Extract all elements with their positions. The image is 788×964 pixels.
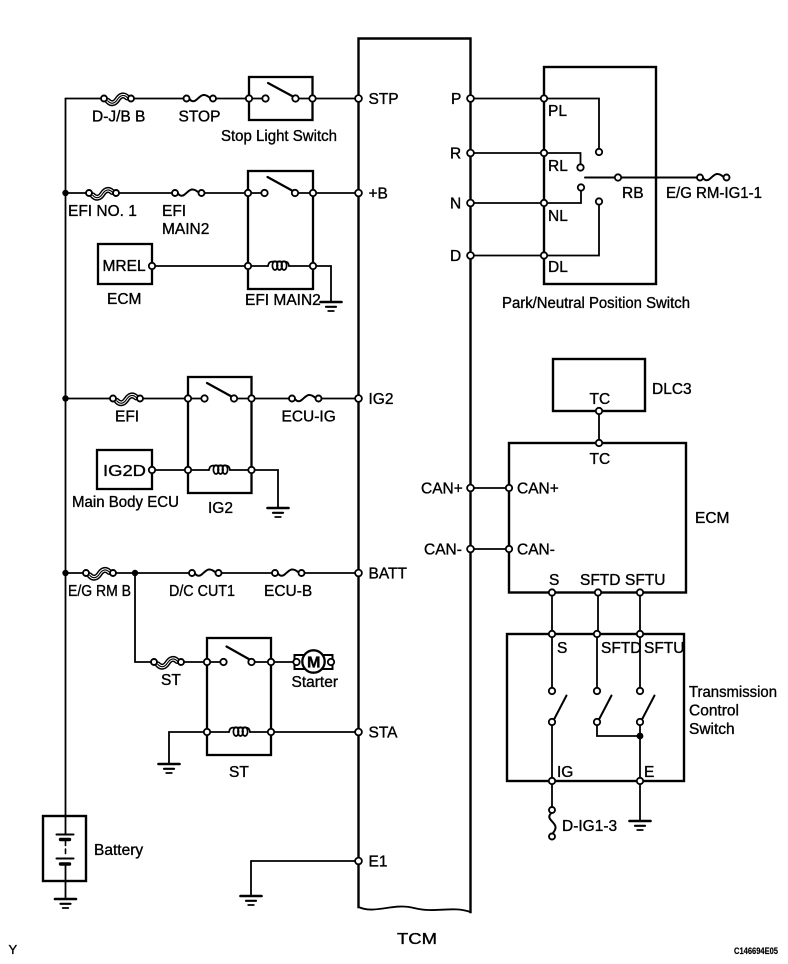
fuse E/G RM-IG1-1 <box>697 172 730 183</box>
terminal BATT <box>355 570 362 577</box>
svg-text:ECM: ECM <box>107 291 141 308</box>
coil of relay EFI MAIN2 <box>248 265 313 267</box>
svg-text:RL: RL <box>548 158 568 175</box>
svg-text:STA: STA <box>369 725 399 742</box>
svg-text:R: R <box>450 146 461 163</box>
svg-text:SFTU: SFTU <box>644 640 684 657</box>
svg-text:CAN+: CAN+ <box>421 481 463 498</box>
wire N row <box>471 202 545 204</box>
svg-text:IG2D: IG2D <box>103 463 146 480</box>
ground (battery) <box>55 899 76 908</box>
left bus wire <box>65 99 67 817</box>
terminal STA <box>355 729 362 736</box>
coil of relay ST <box>207 731 271 733</box>
svg-text:Main Body ECU: Main Body ECU <box>72 494 179 511</box>
node: junction IG2 row <box>62 395 68 401</box>
svg-text:STP: STP <box>369 91 399 108</box>
svg-text:CAN-: CAN- <box>517 542 555 559</box>
pin CAN+ (ECM) <box>506 485 512 491</box>
wire IG2D to relay <box>155 469 185 471</box>
svg-text:S: S <box>549 572 559 589</box>
svg-text:TCM: TCM <box>397 931 437 948</box>
svg-text:Starter: Starter <box>292 674 339 691</box>
fuse EFI MAIN2 <box>172 188 205 199</box>
svg-text:ECU-IG: ECU-IG <box>282 409 336 426</box>
wire STA row <box>274 731 358 733</box>
node RB <box>615 174 621 180</box>
wire relay IG2 to ground <box>255 470 278 507</box>
wire relay to ground <box>316 266 331 301</box>
TCM box <box>359 39 471 949</box>
wire CAN- <box>471 548 510 550</box>
svg-text:D-J/B B: D-J/B B <box>92 109 145 126</box>
wire D row <box>471 255 545 257</box>
svg-text:ST: ST <box>229 764 249 781</box>
svg-text:+B: +B <box>369 186 388 203</box>
terminal CAN+ (TCM) <box>467 485 474 492</box>
svg-text:ST: ST <box>161 672 181 689</box>
ECM MREL box <box>98 244 155 308</box>
switch: Stop Light Switch <box>221 77 337 145</box>
pin CAN- (ECM) <box>506 546 512 552</box>
Park/Neutral Position Switch box <box>502 67 690 312</box>
wire RL contact <box>544 153 581 164</box>
wire R row <box>471 152 545 154</box>
svg-text:PL: PL <box>548 103 567 120</box>
DLC3 box <box>553 359 692 414</box>
svg-text:CAN+: CAN+ <box>517 481 559 498</box>
wire +B row <box>66 192 359 194</box>
svg-text:M: M <box>307 655 321 672</box>
svg-text:D/C CUT1: D/C CUT1 <box>169 583 235 600</box>
ECM pin S <box>549 589 555 595</box>
fusible link EFI <box>110 391 143 405</box>
wire NL contact <box>544 191 581 203</box>
relay IG2 <box>185 377 255 517</box>
wire MREL to relay <box>155 265 245 267</box>
svg-text:E/G RM B: E/G RM B <box>68 583 131 600</box>
svg-text:IG2: IG2 <box>369 391 394 408</box>
svg-text:Switch: Switch <box>689 721 735 738</box>
svg-text:EFI: EFI <box>115 409 139 426</box>
ECM box <box>509 440 729 593</box>
svg-text:TC: TC <box>590 391 611 408</box>
svg-text:Battery: Battery <box>94 842 143 859</box>
fusible link D-J/B B <box>101 91 134 105</box>
wire RB pole <box>585 177 697 179</box>
TCS pin SFTD <box>594 631 600 637</box>
battery <box>43 816 143 898</box>
terminal R <box>467 150 474 157</box>
svg-text:Transmission: Transmission <box>689 684 777 701</box>
svg-text:SFTD: SFTD <box>580 572 620 589</box>
coil of relay IG2 <box>188 469 252 471</box>
ground (EFI MAIN2 relay) <box>321 302 342 311</box>
svg-text:DLC3: DLC3 <box>652 381 692 398</box>
ground (IG2 relay) <box>268 508 289 517</box>
pin NL <box>541 200 547 206</box>
wire S <box>551 596 553 631</box>
wire SFTD <box>597 596 599 631</box>
fuse D-IG1-3 (vertical) <box>549 807 556 840</box>
svg-text:EFI NO. 1: EFI NO. 1 <box>68 203 137 220</box>
svg-text:D: D <box>450 248 461 265</box>
svg-text:CAN-: CAN- <box>424 542 462 559</box>
svg-text:STOP: STOP <box>179 109 221 126</box>
ECM pin SFTD <box>595 589 601 595</box>
wire STP row <box>66 98 359 100</box>
svg-text:P: P <box>451 91 461 108</box>
wire SFTU <box>639 596 641 631</box>
TCS pin IG <box>549 778 555 784</box>
switch SFTU <box>637 637 655 781</box>
ground (ST relay) <box>159 764 180 773</box>
svg-text:BATT: BATT <box>369 566 408 583</box>
svg-text:MAIN2: MAIN2 <box>162 221 209 238</box>
ground (TCS E) <box>630 821 651 830</box>
node: junction +B row <box>62 190 68 196</box>
Transmission Control Switch box <box>507 634 777 781</box>
wire DL contact <box>544 205 599 256</box>
wire P row <box>471 98 545 100</box>
svg-text:E1: E1 <box>369 854 388 871</box>
svg-text:Y: Y <box>9 942 18 957</box>
terminal P <box>467 95 474 102</box>
svg-text:S: S <box>557 640 567 657</box>
relay ST <box>204 638 274 781</box>
fusible link E/G RM B <box>83 566 116 580</box>
pin DL <box>541 252 547 258</box>
svg-text:SFTU: SFTU <box>625 572 665 589</box>
svg-text:C146694E05: C146694E05 <box>734 946 779 957</box>
svg-text:Stop Light Switch: Stop Light Switch <box>221 128 337 145</box>
wire E1 row <box>251 860 359 862</box>
fusible link EFI NO. 1 <box>86 186 119 200</box>
wire CAN+ <box>471 487 510 489</box>
wire E down <box>639 784 641 820</box>
svg-text:ECU-B: ECU-B <box>264 583 312 600</box>
pin RL <box>541 150 547 156</box>
svg-text:N: N <box>450 196 461 213</box>
svg-text:RB: RB <box>622 185 644 202</box>
wire PL contact <box>544 99 599 149</box>
svg-text:IG: IG <box>557 764 573 781</box>
Main Body ECU IG2D box <box>72 450 179 511</box>
TCS pin E <box>637 778 643 784</box>
ground (E1) <box>241 896 262 905</box>
fuse STOP <box>184 93 217 104</box>
svg-text:Park/Neutral Position Switch: Park/Neutral Position Switch <box>502 295 690 312</box>
svg-text:E/G RM-IG1-1: E/G RM-IG1-1 <box>666 185 762 202</box>
terminal +B <box>355 190 362 197</box>
svg-text:EFI: EFI <box>162 203 186 220</box>
wire IG2 row <box>66 398 359 400</box>
terminal E1 <box>355 858 362 865</box>
pin PL <box>541 95 547 101</box>
svg-text:E: E <box>644 764 654 781</box>
node: junction BATT row <box>62 570 68 576</box>
svg-text:DL: DL <box>548 259 568 276</box>
svg-text:IG2: IG2 <box>208 500 233 517</box>
TCS pin SFTU <box>637 631 643 637</box>
wire relay coil to ground <box>169 732 204 763</box>
fuse ECU-IG <box>289 393 322 404</box>
terminal D <box>467 252 474 259</box>
wire BATT row <box>66 572 359 574</box>
svg-text:ECM: ECM <box>695 510 729 527</box>
wire IG down <box>551 784 553 807</box>
motor M1 Starter <box>292 650 339 691</box>
svg-text:Control: Control <box>689 703 739 720</box>
switch S <box>549 637 567 781</box>
svg-text:MREL: MREL <box>103 258 146 275</box>
fusible link ST <box>151 655 184 669</box>
svg-text:EFI MAIN2: EFI MAIN2 <box>245 292 321 309</box>
wire branch to ST <box>135 573 293 662</box>
svg-text:NL: NL <box>548 208 568 225</box>
fuse D/C CUT1 <box>189 568 222 579</box>
ECM pin SFTU <box>637 589 643 595</box>
node: junction SFTD/SFTU <box>637 733 644 740</box>
svg-text:TC: TC <box>590 451 611 468</box>
terminal N <box>467 200 474 207</box>
svg-text:D-IG1-3: D-IG1-3 <box>562 818 617 835</box>
switch SFTD <box>594 637 640 736</box>
fuse ECU-B <box>272 568 305 579</box>
terminal IG2 <box>355 395 362 402</box>
wire TC <box>598 414 600 443</box>
node: junction ST branch <box>132 570 138 576</box>
relay EFI MAIN2 <box>245 171 321 309</box>
terminal STP <box>355 95 362 102</box>
TCS pin S <box>549 631 555 637</box>
terminal CAN- (TCM) <box>467 546 474 553</box>
svg-text:SFTD: SFTD <box>601 640 641 657</box>
